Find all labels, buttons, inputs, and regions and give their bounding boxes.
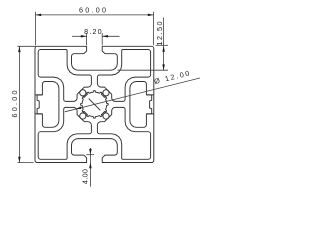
dimension 8.20 dimension line: [72, 35, 87, 37]
keyhole screw pocket bottom-left: [80, 113, 86, 119]
dimension 60.00 left dimension line: [18, 46, 20, 162]
dimension 12.50 dimension line: [163, 18, 165, 71]
keyhole screw pocket bottom-right: [103, 113, 109, 119]
svg-text:8.20: 8.20: [84, 27, 102, 36]
corner cavity top-left: [38, 50, 91, 102]
keyhole screw pocket top-left: [80, 90, 86, 96]
dimension 4.00 extension line: [86, 154, 94, 156]
dimension 60.00 top extension line left: [34, 12, 36, 45]
corner cavity top-right: [97, 50, 150, 102]
leader arrowhead: [76, 107, 82, 110]
dimension 8.20 extension line left: [86, 33, 88, 45]
right slot internal cavity: [130, 82, 154, 128]
dimension 12.50 extension line bottom: [118, 69, 169, 71]
corner cavity bottom-left: [38, 107, 91, 159]
svg-text:12.50: 12.50: [155, 22, 164, 46]
svg-text:4.00: 4.00: [80, 169, 89, 184]
dimension 60.00 top dimension line: [35, 14, 153, 16]
dimension 60.00 left extension line top: [17, 45, 35, 47]
dimension 60.00 top extension line right: [153, 12, 155, 45]
dimension 12.50 extension line top: [156, 44, 168, 46]
centre mark X stroke: [89, 99, 101, 111]
dimension 4.00 dimension line: [89, 148, 91, 155]
central bore with serrations: [81, 91, 109, 119]
dimension 8.20 extension line right: [101, 33, 103, 45]
diameter leader line: [65, 78, 200, 112]
keyhole screw pocket top-right: [103, 90, 109, 96]
profile outer contour with four T-slots: [35, 46, 154, 162]
dimension 60.00 left extension line bottom: [17, 162, 33, 164]
slot cover clip left: [37, 95, 42, 114]
left slot internal cavity: [35, 82, 59, 128]
slot cover clip right: [147, 95, 152, 114]
corner cavity bottom-right: [97, 107, 150, 159]
